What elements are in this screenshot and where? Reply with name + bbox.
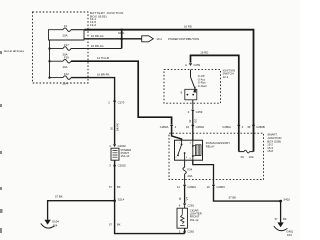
svg-text:20A: 20A (63, 82, 68, 86)
label: cigar lighter front (190, 208, 202, 222)
svg-text:DG: DG (193, 119, 197, 123)
svg-text:16 RD-LG: 16 RD-LG (91, 44, 104, 48)
wire down to ground G401 (280, 201, 282, 222)
svg-text:BK-PK: BK-PK (115, 123, 119, 131)
svg-text:S402: S402 (283, 198, 290, 202)
ground G401 (274, 222, 294, 237)
svg-text:10A: 10A (249, 155, 254, 159)
svg-text:C280A: C280A (222, 125, 231, 129)
fuse F12 20A (row 4) (48, 72, 71, 85)
svg-text:BK: BK (117, 223, 121, 227)
svg-text:C2002: C2002 (118, 164, 127, 168)
svg-text:16: 16 (186, 125, 190, 129)
connector C2002 pin 3 (109, 163, 126, 167)
wire: run/accessory relay feed 14 TN-LB (71, 61, 172, 124)
svg-text:O-Start: O-Start (198, 84, 207, 88)
svg-text:104: 104 (287, 233, 292, 237)
svg-text:57 BK: 57 BK (55, 195, 63, 199)
svg-text:16 RD-LG: 16 RD-LG (91, 34, 104, 38)
SJB fuse F9 10A (239, 150, 254, 159)
svg-text:C281: C281 (187, 203, 194, 207)
svg-text:F12: F12 (64, 72, 69, 76)
ignition switch pin A C259 (185, 63, 201, 67)
svg-text:VT: VT (185, 197, 189, 201)
wire: cigar lighter to ground bus (184, 228, 186, 233)
label: battery junction box (90, 11, 124, 27)
svg-text:C280B: C280B (256, 125, 265, 129)
fuse F1 20A (63, 28, 71, 32)
svg-text:S214: S214 (118, 198, 125, 202)
ignition switch pin 4 C259 (188, 110, 203, 114)
splice S101 (118, 29, 125, 49)
label: power point (121, 148, 132, 158)
svg-text:10: 10 (207, 185, 211, 189)
svg-text:RELAY: RELAY (206, 145, 215, 149)
off-page arrow 10.2 power distribution (142, 36, 199, 42)
relay coil (190, 140, 201, 160)
battery junction box BJB (dashed) (33, 12, 89, 83)
svg-text:15-8: 15-8 (267, 149, 273, 153)
svg-text:S101: S101 (118, 31, 125, 35)
label: run/accessory relay (206, 141, 230, 148)
splice S402 (279, 200, 282, 203)
svg-text:12-1: 12-1 (223, 75, 229, 79)
scan artifacts left edge (0, 51, 3, 233)
label: smart junction box (267, 133, 281, 154)
wire label 57 BK lower (109, 223, 121, 227)
BJB internal bus (49, 40, 51, 78)
wire: branch to power distribution (84, 38, 142, 40)
svg-text:BK: BK (117, 185, 121, 189)
pin 16 C280A (191, 125, 194, 128)
pin 4 C280A (left) (170, 125, 173, 128)
svg-text:C280A: C280A (196, 125, 205, 129)
svg-text:16 RD: 16 RD (184, 24, 192, 28)
svg-text:C280C: C280C (216, 185, 225, 189)
svg-text:F24: F24 (187, 167, 192, 171)
wire: ignition to relay coil (192, 112, 194, 140)
relay contact (175, 140, 188, 160)
ground G104 (41, 220, 59, 229)
wire: power point ground 57 BK (115, 160, 185, 233)
rotated wire label 16 BK-PK (110, 123, 120, 131)
svg-text:C259: C259 (193, 63, 200, 67)
svg-text:14 TN-LB: 14 TN-LB (97, 56, 109, 60)
ignition switch position list (198, 74, 207, 88)
fuse F24 20A (183, 160, 193, 184)
rotated wire label 32 DG (188, 119, 197, 123)
run/accessory relay box (175, 140, 203, 160)
svg-text:16 BR-PK: 16 BR-PK (97, 72, 110, 76)
svg-text:40A: 40A (63, 65, 68, 69)
svg-text:C281: C281 (187, 230, 194, 234)
connector C281 pin 4 (179, 203, 195, 207)
relay exit pin 11 C280A (177, 185, 196, 189)
svg-text:BK: BK (283, 217, 287, 221)
power point component (111, 148, 119, 160)
svg-text:20A: 20A (63, 34, 68, 38)
splice S214 (113, 199, 116, 202)
fuse F17 30A (row 2) (48, 43, 121, 56)
svg-text:151-12: 151-12 (190, 218, 199, 222)
wire: main hot feed 16 RD (71, 29, 85, 31)
wire: relay ground 57 BK (214, 187, 281, 201)
svg-text:10.2: 10.2 (157, 37, 163, 41)
rotated wire label 16 VT (178, 197, 189, 201)
smart junction box (dashed) (169, 133, 264, 179)
svg-text:A: A (185, 63, 187, 67)
connector C281 pin 3 (179, 230, 195, 234)
pin 30 C280B (252, 125, 255, 128)
svg-text:151-12: 151-12 (121, 154, 130, 158)
pin 4 C280A (right) (237, 125, 240, 128)
svg-text:F9: F9 (241, 155, 245, 159)
svg-text:Hot at all times: Hot at all times (4, 49, 24, 53)
svg-text:30: 30 (247, 125, 251, 129)
svg-text:F19: F19 (64, 56, 69, 60)
svg-text:16 RD: 16 RD (200, 50, 208, 54)
relay box top pin row (160, 125, 265, 129)
svg-text:C270: C270 (118, 100, 125, 104)
wire to ground G104 (48, 201, 115, 220)
svg-text:F17: F17 (64, 43, 69, 47)
cigar lighter component (177, 206, 188, 228)
relay exit pin 10 C280C (207, 185, 226, 189)
svg-text:11: 11 (177, 185, 180, 189)
svg-text:C280A: C280A (160, 125, 169, 129)
svg-text:F1: F1 (64, 24, 68, 28)
ignition switch box (dashed) (164, 70, 221, 104)
svg-text:POWER DISTRIBUTION: POWER DISTRIBUTION (168, 37, 199, 41)
wire: entry jog to relay contact (172, 127, 182, 140)
svg-text:104: 104 (53, 223, 58, 227)
fuse F19 40A (row 3) (48, 56, 71, 69)
ignition switch internals (181, 70, 197, 110)
wire: power point feed 16 BR-PK (71, 78, 115, 144)
label: ignition switch (223, 69, 235, 79)
wire: coil output to ground (193, 160, 214, 184)
svg-text:20A: 20A (187, 174, 192, 178)
connector C2002 pin 1 (109, 144, 126, 148)
svg-text:C280A: C280A (187, 185, 196, 189)
svg-text:C259: C259 (196, 110, 203, 114)
wire: ignition switch feed 16 RD (191, 55, 239, 151)
svg-text:57 BK: 57 BK (229, 195, 237, 199)
wire: cigar lighter feed (184, 187, 186, 203)
inline connector C270 pin 2 (108, 100, 125, 104)
svg-text:13-2: 13-2 (90, 23, 96, 27)
fuse block rectangle in BJB (49, 30, 85, 40)
